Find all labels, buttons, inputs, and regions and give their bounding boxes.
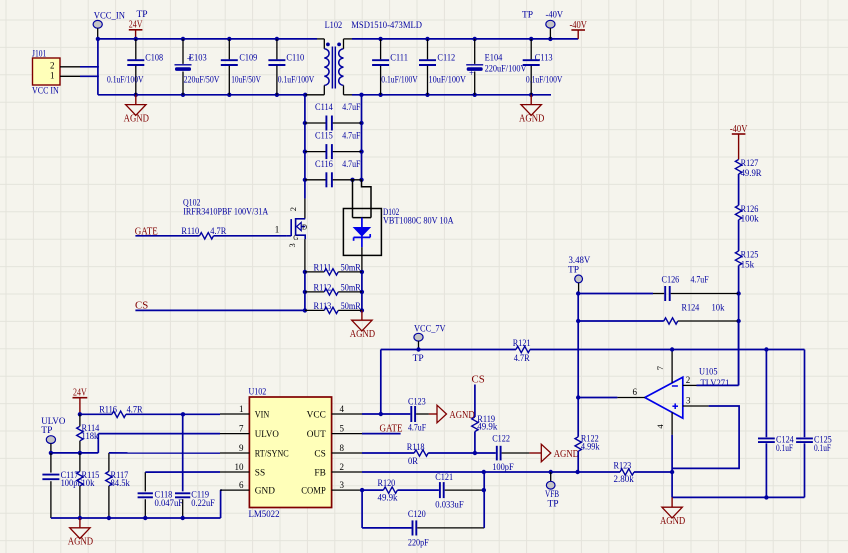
wire VCC pin to rail xyxy=(362,350,383,417)
svg-text:3: 3 xyxy=(686,395,691,405)
wire -40V rail xyxy=(352,38,578,40)
svg-text:1: 1 xyxy=(275,225,280,235)
svg-text:C123: C123 xyxy=(408,397,426,407)
svg-text:3.48V: 3.48V xyxy=(569,256,591,266)
transformer L102 xyxy=(305,20,422,95)
svg-text:220uF/50V: 220uF/50V xyxy=(184,75,220,85)
svg-text:10uF/100V: 10uF/100V xyxy=(429,75,467,85)
svg-text:CS: CS xyxy=(314,449,325,459)
svg-text:GND: GND xyxy=(255,487,275,497)
wire sense rail right xyxy=(361,272,363,311)
junction dots FB row xyxy=(482,470,675,474)
svg-text:AGND: AGND xyxy=(124,113,149,124)
wire R125 to IN- xyxy=(738,294,740,386)
wire 24V rail xyxy=(98,38,317,40)
svg-text:4.7uF: 4.7uF xyxy=(342,159,360,169)
svg-text:AGND: AGND xyxy=(449,410,475,421)
capacitor C120 xyxy=(408,509,484,547)
resistor R125 xyxy=(735,250,758,294)
resistor R117 xyxy=(106,453,130,518)
svg-text:2: 2 xyxy=(686,375,691,385)
svg-text:-40V: -40V xyxy=(546,10,564,20)
svg-text:AGND: AGND xyxy=(350,329,375,340)
svg-text:CS: CS xyxy=(472,374,485,386)
wire ground rail left xyxy=(98,94,306,96)
pin numbers U102 left xyxy=(235,404,245,490)
power port -40V right xyxy=(730,124,748,160)
resistor R111 xyxy=(305,262,362,275)
svg-text:AGND: AGND xyxy=(554,449,580,460)
svg-text:TP: TP xyxy=(548,500,559,510)
svg-text:C116: C116 xyxy=(315,159,333,169)
svg-text:10uF/50V: 10uF/50V xyxy=(231,75,261,85)
svg-text:2.80k: 2.80k xyxy=(614,474,635,484)
svg-text:ULVO: ULVO xyxy=(255,430,279,440)
svg-text:J101: J101 xyxy=(32,50,46,60)
svg-text:VFB: VFB xyxy=(545,490,559,500)
pin 4 of U105 xyxy=(655,412,672,472)
svg-text:C109: C109 xyxy=(239,52,257,62)
svg-text:9: 9 xyxy=(239,443,244,453)
svg-text:L102: L102 xyxy=(325,20,343,30)
connector J101 xyxy=(32,50,60,97)
ground AGND input xyxy=(124,95,149,125)
svg-text:0.1uF/100V: 0.1uF/100V xyxy=(278,75,315,85)
wire C120 to FB xyxy=(483,472,485,528)
testpoint VFB xyxy=(545,472,559,510)
svg-text:7: 7 xyxy=(655,366,665,370)
capacitor C114 xyxy=(305,102,362,130)
junction dots opamp rails xyxy=(764,347,768,499)
svg-text:C126: C126 xyxy=(662,275,680,285)
svg-text:49.9k: 49.9k xyxy=(477,421,497,431)
svg-text:0.1uF: 0.1uF xyxy=(776,443,793,453)
transistor Q102 xyxy=(183,197,307,272)
capacitor C111 xyxy=(372,39,418,95)
resistor R119 xyxy=(472,385,498,456)
svg-text:4: 4 xyxy=(655,424,665,429)
wire left rail mid xyxy=(304,95,306,199)
svg-text:VBT1080C 80V 10A: VBT1080C 80V 10A xyxy=(383,216,454,226)
pin names U102 right xyxy=(301,410,326,496)
svg-text:U102: U102 xyxy=(249,387,267,397)
svg-text:D: D xyxy=(302,224,307,232)
svg-text:49.9k: 49.9k xyxy=(378,492,398,502)
svg-text:TP: TP xyxy=(41,426,52,436)
capacitor C119 xyxy=(175,414,215,518)
capacitor C126 xyxy=(578,275,738,302)
testpoint ULVO xyxy=(41,417,65,453)
capacitor C113 xyxy=(523,39,563,95)
capacitor C122 xyxy=(492,434,529,473)
svg-text:R120: R120 xyxy=(378,478,396,488)
resistor R116 xyxy=(99,405,143,418)
resistor R118 xyxy=(407,442,428,466)
pins of U102 xyxy=(220,414,362,490)
svg-text:R126: R126 xyxy=(741,204,759,214)
svg-text:IRFR3410PBF 100V/31A: IRFR3410PBF 100V/31A xyxy=(183,207,268,217)
svg-text:TP: TP xyxy=(137,10,148,20)
ground AGND sense xyxy=(350,310,375,340)
resistor R120 xyxy=(378,478,398,502)
svg-text:VIN: VIN xyxy=(255,410,270,420)
svg-text:OUT: OUT xyxy=(307,430,326,440)
power port -40V top xyxy=(569,20,587,39)
resistor R114 xyxy=(77,414,100,453)
ground AGND arrow CS xyxy=(529,444,579,462)
svg-text:4.7R: 4.7R xyxy=(210,226,227,236)
svg-text:0.1uF: 0.1uF xyxy=(814,443,831,453)
svg-text:RT/SYNC: RT/SYNC xyxy=(255,449,289,459)
wire ground rail right xyxy=(352,94,551,96)
svg-text:220pF: 220pF xyxy=(408,537,429,547)
svg-text:AGND: AGND xyxy=(519,113,544,124)
power port 24V lower xyxy=(73,388,88,415)
svg-text:LM5022: LM5022 xyxy=(249,509,280,519)
svg-text:R124: R124 xyxy=(682,302,700,312)
svg-text:15k: 15k xyxy=(741,259,755,269)
op-amp U105 TLV271 xyxy=(645,367,730,419)
svg-text:C108: C108 xyxy=(145,52,163,62)
wire J101 to input node xyxy=(80,39,99,95)
svg-text:MSD1510-473MLD: MSD1510-473MLD xyxy=(351,20,422,30)
svg-text:6: 6 xyxy=(633,387,638,397)
net label CS left xyxy=(135,299,148,311)
svg-text:0.1uF/100V: 0.1uF/100V xyxy=(107,75,144,85)
svg-text:0R: 0R xyxy=(408,456,419,466)
net label GATE right xyxy=(362,423,403,435)
svg-text:R121: R121 xyxy=(513,338,531,348)
capacitor C123 xyxy=(381,397,429,433)
svg-text:R110: R110 xyxy=(181,226,199,236)
junction dots lower rail xyxy=(78,516,185,520)
svg-text:118k: 118k xyxy=(82,431,99,441)
capacitor C121 xyxy=(435,472,486,510)
svg-text:C113: C113 xyxy=(535,52,553,62)
wire CS row xyxy=(362,452,496,454)
svg-text:5: 5 xyxy=(340,424,345,434)
capacitor C118 xyxy=(138,472,184,518)
svg-text:SS: SS xyxy=(255,468,265,478)
junction dots sense xyxy=(303,270,364,313)
svg-text:4.99k: 4.99k xyxy=(581,441,600,451)
svg-text:AGND: AGND xyxy=(68,537,93,548)
diode D102 xyxy=(343,180,454,272)
svg-text:50mR: 50mR xyxy=(341,262,362,272)
svg-text:4.7R: 4.7R xyxy=(514,353,531,363)
svg-text:1: 1 xyxy=(239,404,244,414)
svg-text:R113: R113 xyxy=(314,301,332,311)
wire FB row xyxy=(362,471,672,473)
svg-text:8: 8 xyxy=(340,443,345,453)
junction dots ground rail right xyxy=(359,93,533,97)
svg-text:4.7uF: 4.7uF xyxy=(342,102,360,112)
svg-text:100k: 100k xyxy=(741,214,759,224)
pin 6 of U105 xyxy=(578,387,645,397)
svg-text:49.9R: 49.9R xyxy=(741,168,763,178)
svg-text:E103: E103 xyxy=(189,52,207,62)
svg-text:2: 2 xyxy=(340,462,345,472)
svg-text:R112: R112 xyxy=(314,282,332,292)
resistor R113 xyxy=(305,301,362,314)
svg-text:R118: R118 xyxy=(407,442,425,452)
wire C120 branch xyxy=(362,490,411,528)
svg-text:FB: FB xyxy=(314,468,325,478)
svg-text:0.033uF: 0.033uF xyxy=(435,500,463,510)
svg-text:-40V: -40V xyxy=(730,124,748,135)
svg-text:1: 1 xyxy=(50,70,55,80)
svg-text:10: 10 xyxy=(235,462,245,472)
svg-text:R111: R111 xyxy=(314,262,332,272)
resistor R122 xyxy=(575,395,600,472)
testpoint VCC_IN xyxy=(93,12,125,39)
svg-text:VCC: VCC xyxy=(307,410,326,420)
svg-text:0.22uF: 0.22uF xyxy=(191,498,215,508)
capacitor C117 xyxy=(42,453,82,518)
wire GATE to Q102 gate xyxy=(135,235,286,237)
svg-text:4: 4 xyxy=(340,404,345,414)
resistor R115 xyxy=(77,453,100,518)
svg-text:C122: C122 xyxy=(492,434,510,444)
pin 2 of J101 xyxy=(60,66,80,68)
svg-text:COMP: COMP xyxy=(301,487,326,497)
svg-text:GATE: GATE xyxy=(380,423,403,435)
pin names U102 left xyxy=(255,410,289,496)
svg-text:24V: 24V xyxy=(129,20,143,31)
svg-text:0.1uF/100V: 0.1uF/100V xyxy=(526,75,563,85)
wire CS xyxy=(135,309,305,311)
svg-text:220uF/100V: 220uF/100V xyxy=(485,64,527,74)
ground AGND arrow VCC xyxy=(429,405,475,423)
svg-text:TLV271: TLV271 xyxy=(701,378,730,388)
svg-text:4.7uF: 4.7uF xyxy=(408,423,426,433)
capacitor C108 xyxy=(107,39,163,95)
capacitor C115 xyxy=(305,131,362,159)
svg-text:10k: 10k xyxy=(712,302,725,312)
capacitor C110 xyxy=(268,39,314,95)
wire right rail mid xyxy=(361,95,363,180)
pin 7 of U105 xyxy=(655,347,675,383)
net label CS right xyxy=(472,374,485,386)
svg-text:R123: R123 xyxy=(614,460,632,470)
wire ground rail lower-left xyxy=(51,490,222,518)
net label GATE left xyxy=(135,225,158,237)
junction dots mid rails xyxy=(303,121,364,182)
svg-text:U105: U105 xyxy=(699,367,718,377)
svg-text:4.7R: 4.7R xyxy=(127,405,144,415)
svg-text:C121: C121 xyxy=(435,472,453,482)
op controller U102 LM5022 xyxy=(249,387,332,519)
pin 3 of U105 xyxy=(672,395,739,468)
testpoint VCC_7V xyxy=(413,324,446,364)
junction dots ground rail left xyxy=(134,93,308,97)
resistor R112 xyxy=(305,282,362,295)
power port 24V top xyxy=(129,10,148,39)
svg-text:C114: C114 xyxy=(315,102,333,112)
svg-text:84.5k: 84.5k xyxy=(111,478,131,488)
svg-text:7: 7 xyxy=(239,424,244,434)
junction dots input rail xyxy=(96,37,279,41)
capacitor C125 xyxy=(796,350,832,498)
junction dots VIN row xyxy=(78,412,185,416)
svg-text:C110: C110 xyxy=(286,52,304,62)
svg-text:VCC IN: VCC IN xyxy=(32,87,59,97)
resistor R126 xyxy=(735,204,759,251)
resistor R127 xyxy=(735,158,762,205)
ground AGND opamp xyxy=(660,497,685,527)
testpoint -40V xyxy=(522,10,563,39)
capacitor C109 xyxy=(221,39,261,95)
svg-text:G: G xyxy=(293,234,298,242)
svg-text:10k: 10k xyxy=(82,478,95,488)
resistor R123 xyxy=(614,460,635,484)
pin 2 of U105 xyxy=(683,321,739,385)
capacitor C116 xyxy=(305,159,362,187)
svg-text:AGND: AGND xyxy=(660,516,685,527)
capacitor C112 xyxy=(419,39,466,95)
wire SS row xyxy=(145,471,220,473)
resistor R110 xyxy=(181,226,227,239)
svg-text:R127: R127 xyxy=(741,158,759,168)
svg-text:6: 6 xyxy=(239,480,244,490)
wire 3.48V node vertical xyxy=(577,294,579,398)
capacitor E104 electrolytic xyxy=(466,39,527,95)
wire opamp ground rail xyxy=(672,472,804,497)
svg-text:2: 2 xyxy=(288,207,298,211)
svg-text:24V: 24V xyxy=(73,388,87,399)
junction dots -40V rail xyxy=(378,37,552,41)
wire ULVO net xyxy=(51,434,220,453)
svg-text:4.7uF: 4.7uF xyxy=(342,131,360,141)
capacitor C124 xyxy=(758,350,794,498)
svg-text:+: + xyxy=(469,68,474,78)
svg-text:TP: TP xyxy=(568,266,579,276)
pin 1 label Q102 xyxy=(275,225,280,235)
wire RT/SYNC xyxy=(109,452,220,454)
svg-text:C120: C120 xyxy=(408,509,426,519)
svg-text:3: 3 xyxy=(340,480,345,490)
svg-text:0.047uF: 0.047uF xyxy=(155,498,184,508)
svg-text:50mR: 50mR xyxy=(341,282,362,292)
svg-text:C115: C115 xyxy=(315,131,333,141)
wire VIN row xyxy=(80,413,220,415)
ground AGND lower-left xyxy=(68,518,93,548)
svg-text:4.7uF: 4.7uF xyxy=(691,275,709,285)
svg-text:TP: TP xyxy=(413,354,424,364)
svg-text:C112: C112 xyxy=(437,52,455,62)
svg-text:TP: TP xyxy=(522,10,533,20)
svg-text:C111: C111 xyxy=(390,52,408,62)
wire COMP row xyxy=(360,488,439,492)
svg-text:-40V: -40V xyxy=(569,20,587,31)
svg-text:2: 2 xyxy=(50,61,55,71)
pin 1 of J101 xyxy=(60,75,80,77)
pin numbers U102 right xyxy=(340,404,345,490)
resistor R124 xyxy=(578,302,738,324)
wire VCC_7V rail xyxy=(381,349,805,351)
svg-text:GATE: GATE xyxy=(135,225,158,237)
resistor R121 xyxy=(513,338,531,363)
svg-text:0.1uF/100V: 0.1uF/100V xyxy=(381,75,418,85)
testpoint 3.48V xyxy=(568,256,590,294)
ground AGND right block xyxy=(519,95,544,125)
wire sense rail left xyxy=(304,272,306,311)
svg-text:CS: CS xyxy=(135,299,148,311)
svg-text:50mR: 50mR xyxy=(341,301,362,311)
junction dots ULVO net xyxy=(49,451,82,455)
junction dots 3.48V node xyxy=(576,291,741,323)
svg-text:E104: E104 xyxy=(485,52,503,62)
svg-text:100pF: 100pF xyxy=(492,462,514,472)
svg-text:3: 3 xyxy=(287,243,297,247)
capacitor E103 electrolytic xyxy=(175,39,220,95)
svg-text:R125: R125 xyxy=(741,250,759,260)
